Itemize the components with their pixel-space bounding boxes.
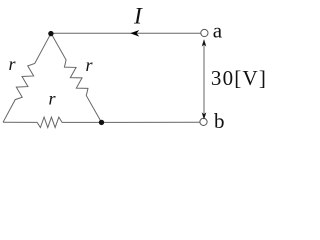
resistor r (left): [3, 33, 51, 122]
resistor r (bottom): [3, 117, 102, 127]
junction dot: bottom-right node: [99, 120, 104, 125]
svg-text:b: b: [214, 109, 225, 133]
svg-text:30[V]: 30[V]: [211, 66, 267, 90]
resistor r (right): [51, 33, 102, 122]
svg-text:r: r: [86, 55, 94, 75]
current arrowhead I (pointing left): [130, 30, 139, 37]
voltage arrowhead down (at b): [202, 112, 207, 119]
svg-text:r: r: [9, 54, 17, 74]
terminal a circle: [201, 29, 208, 36]
svg-text:I: I: [133, 4, 143, 30]
voltage arrow line 30V: [203, 40, 205, 119]
wire top: node to terminal a: [51, 32, 201, 34]
svg-text:r: r: [49, 89, 57, 109]
svg-text:a: a: [213, 19, 223, 43]
junction dot: top node: [48, 31, 53, 36]
wire bottom: node to terminal b: [102, 121, 201, 123]
voltage arrowhead up (at a): [202, 39, 207, 46]
terminal b circle: [200, 118, 207, 125]
